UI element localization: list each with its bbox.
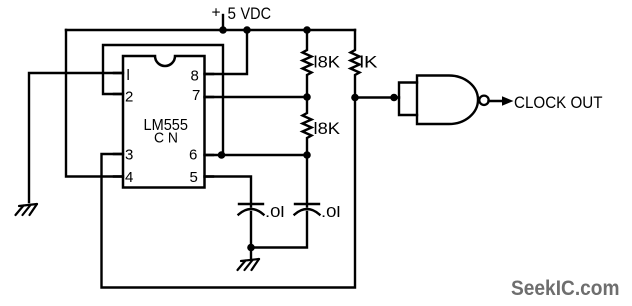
ground middle <box>238 259 260 270</box>
capacitor C1 .01 <box>239 203 263 205</box>
svg-text:l8K: l8K <box>314 120 341 138</box>
NAND gate U2 body <box>417 76 478 125</box>
node R2 bottom junction <box>351 94 359 102</box>
svg-text:C N: C N <box>154 131 178 147</box>
node pin7/R junction <box>303 93 311 101</box>
IC U1 LM555 body <box>123 56 205 188</box>
svg-text:.0l: .0l <box>265 204 285 221</box>
NAND gate U2 input tie <box>399 83 417 116</box>
svg-text:4: 4 <box>125 169 133 186</box>
resistor R3 18K <box>303 97 312 155</box>
wire pin 5 to C1 <box>204 177 251 207</box>
node NAND input junction <box>390 94 398 102</box>
wire R2 bottom to NAND input <box>355 96 399 98</box>
NAND gate U2 bubble <box>479 96 488 105</box>
svg-text:5: 5 <box>190 169 198 186</box>
wire pin 8 from rail <box>204 30 247 74</box>
svg-text:lK: lK <box>360 54 378 72</box>
svg-text:3: 3 <box>125 147 133 164</box>
node +5V stub junction <box>219 26 227 34</box>
IC pin stubs <box>114 73 213 177</box>
node R1 top junction <box>303 26 311 34</box>
wire pin 6 <box>204 154 307 156</box>
node pin6/pin2 junction <box>218 151 226 159</box>
svg-text:l8K: l8K <box>314 54 341 72</box>
node C1/C2 ground junction <box>247 244 255 252</box>
wire left drop from rail to pin 4 <box>66 30 123 177</box>
svg-text:.0l: .0l <box>321 204 341 221</box>
wire clock output with arrow <box>489 100 504 102</box>
svg-text:7: 7 <box>192 87 200 104</box>
power terminal +5VDC stub <box>222 15 224 30</box>
svg-text:SeekIC.com: SeekIC.com <box>511 276 620 300</box>
svg-text:8: 8 <box>191 68 199 85</box>
resistor R2 1K <box>351 30 360 98</box>
wire pin 1 to ground <box>29 73 123 202</box>
wire feedback from NAND input down and back to pin 3 <box>102 98 356 288</box>
svg-text:CLOCK OUT: CLOCK OUT <box>514 94 603 112</box>
svg-text:l: l <box>127 67 130 84</box>
node pin8 drop junction <box>243 26 251 34</box>
node pin6/R3/C2 junction <box>303 151 311 159</box>
ground left <box>16 204 38 215</box>
svg-text:VDC: VDC <box>241 5 272 23</box>
svg-text:5: 5 <box>228 5 237 23</box>
wire top +5V rail <box>66 29 355 31</box>
resistor R1 18K <box>303 30 312 97</box>
wire pin 2 loop tied to pin 6 <box>103 45 223 155</box>
svg-text:2: 2 <box>125 89 133 106</box>
wire pin 7 to R1/R3 junction <box>204 96 307 98</box>
svg-text:+: + <box>212 5 221 22</box>
svg-text:6: 6 <box>189 147 197 164</box>
capacitor C2 .01 <box>306 155 308 207</box>
